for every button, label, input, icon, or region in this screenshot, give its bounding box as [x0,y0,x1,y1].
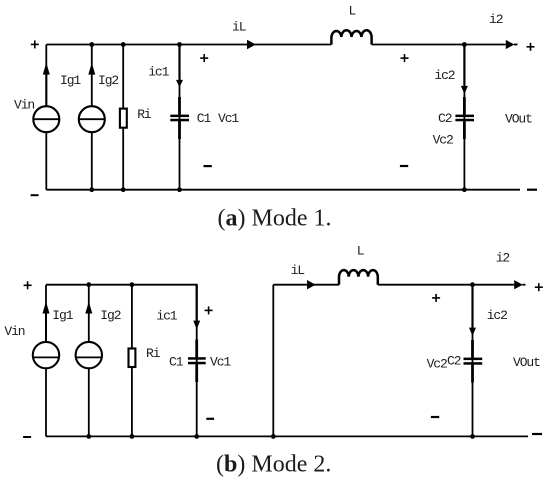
svg-text:Vc2: Vc2 [427,357,447,372]
resistor Ri (mode2) [129,349,136,368]
label + (VOut plus, mode1) [527,43,535,51]
wire: Ri branch vertical (mode1) [122,45,124,190]
label + (Vin plus, mode2) [24,281,32,289]
svg-text:Ig1: Ig1 [60,73,81,88]
junction: Ri/bottom bus (mode1) [121,187,126,192]
wire: C1 branch vertical (mode2) [196,285,198,437]
junction: C2/bottom bus (mode1) [462,187,467,192]
svg-text:L: L [357,244,364,259]
junction: right-section/bottom bus (mode2) [271,434,276,439]
capacitor C1 (mode2) [188,340,206,383]
svg-text:Ig1: Ig1 [52,308,73,323]
svg-text:Vc1: Vc1 [210,355,231,370]
svg-text:(a) Mode 1.: (a) Mode 1. [218,206,332,232]
arrow i2 current at output (mode2) [514,280,525,289]
wire: C1 branch vertical (mode1) [179,45,181,190]
junction: Ig2/top bus (mode2) [86,282,91,287]
label + (Vc1 plus, mode1) [200,54,208,62]
wire: mode1 left rail vertical [45,45,47,190]
svg-text:Ig2: Ig2 [100,308,120,323]
inductor L (mode2) [339,270,378,285]
resistor Ri (mode1) [120,109,127,128]
label - (VOut minus, mode2) [532,433,542,435]
inductor L (mode1) [331,30,371,44]
label - (VOut minus, mode1) [527,189,537,191]
label + (Vc1 plus, mode2) [205,306,213,314]
junction: C2/top bus (mode2) [470,282,475,287]
svg-text:C1: C1 [169,355,184,370]
junction: C1/bottom bus (mode2) [194,434,199,439]
label + (Vin plus, mode1) [31,40,39,48]
svg-text:VOut: VOut [513,355,540,370]
arrow ic2 current (mode1) [461,45,468,95]
wire: mode1 bottom bus [46,189,520,191]
svg-text:ic1: ic1 [148,65,169,80]
svg-text:Ri: Ri [146,346,161,361]
label - (Vc1 minus, mode1) [204,165,212,167]
svg-text:L: L [349,4,356,19]
svg-text:Vin: Vin [4,324,24,339]
svg-text:Ig2: Ig2 [98,73,118,88]
wire: mode2 right-section left vertical [272,285,274,437]
wire: C2 branch vertical (mode2) [472,285,474,437]
current source Ig1 (mode1) [33,63,59,133]
current source Ig1 (mode2) [33,302,59,369]
junction: Ig2/top bus (mode1) [89,42,94,47]
junction: Ri/bottom bus (mode2) [130,434,135,439]
junction: Ig2/bottom bus (mode2) [86,434,91,439]
svg-text:ic2: ic2 [487,308,507,323]
junction: Ri/top bus (mode1) [121,42,126,47]
label - (Vc1 minus, mode2) [206,418,214,420]
junction: C2/bottom bus (mode2) [470,434,475,439]
svg-text:VOut: VOut [505,112,532,127]
svg-text:ic1: ic1 [156,308,177,323]
arrow ic1 current (mode1) [176,45,183,88]
svg-text:i2: i2 [496,251,510,266]
capacitor C2 (mode1) [455,97,474,139]
current source Ig2 (mode2) [76,302,102,369]
wire: C2 branch vertical (mode1) [463,45,465,190]
wire: Ig2 branch vertical (mode1) [91,45,93,190]
label - (Vc2 minus, mode1) [400,165,408,167]
wire: mode2 left-section top bus [46,285,197,290]
svg-text:iL: iL [291,263,305,278]
svg-text:C2: C2 [438,111,452,126]
svg-text:Vin: Vin [14,98,34,113]
wire: Ri branch vertical (mode2) [131,285,133,437]
svg-text:Ri: Ri [137,107,152,122]
label - (Vin minus, mode2) [23,436,31,438]
wire: mode1 top bus [46,44,506,46]
wire: mode2 bottom bus [46,435,528,437]
svg-text:ic2: ic2 [434,68,454,83]
label + (VOut plus, mode2) [535,283,543,291]
svg-text:Vc2: Vc2 [433,133,453,148]
label + (Vc2 plus, mode2) [432,294,440,302]
junction: C1/top bus (mode1) [177,42,182,47]
label - (Vc2 minus, mode2) [431,416,439,418]
wire: mode2 right-section top bus [273,284,514,286]
junction: C1/bottom bus (mode1) [177,187,182,192]
wire: Ig2 branch vertical (mode2) [88,285,90,437]
capacitor C1 (mode1) [170,97,189,139]
label - (Vin minus, mode1) [31,194,39,196]
arrow i2 current at output (mode1) [506,40,518,49]
current source Ig2 (mode1) [79,63,105,133]
svg-text:iL: iL [232,20,246,35]
svg-text:C1: C1 [197,111,212,126]
arrow ic2 current (mode2) [469,285,476,336]
junction: Ri/top bus (mode2) [130,282,135,287]
arrow iL current on top bus (mode1) [247,40,256,49]
junction: C2/top bus (mode1) [462,42,467,47]
svg-text:i2: i2 [489,12,503,27]
arrow iL current on top bus (mode2) [307,280,316,289]
junction: Ig2/bottom bus (mode1) [89,187,94,192]
arrow ic1 current (mode2) [193,285,200,330]
svg-text:Vc1: Vc1 [218,111,239,126]
svg-text:C2: C2 [447,354,461,369]
svg-text:(b) Mode 2.: (b) Mode 2. [216,452,331,478]
label + (Vc2 plus, mode1) [401,54,409,62]
wire: mode2 left rail vertical [45,285,47,437]
capacitor C2 (mode2) [464,340,483,383]
